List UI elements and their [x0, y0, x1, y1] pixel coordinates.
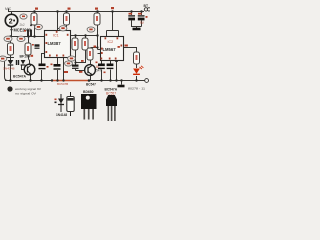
capacitor C8 electrolytic: [104, 65, 114, 73]
svg-text:BC547A: BC547A: [13, 75, 27, 79]
wire ground drop top-right: [136, 27, 138, 29]
svg-text:MCE2000: MCE2000: [14, 27, 32, 32]
wire R6 column: [76, 36, 86, 63]
svg-text:IC1: IC1: [53, 34, 59, 38]
battery terminal BT1: [142, 8, 151, 12]
wire C6 column: [141, 12, 143, 27]
package BD680 body: [81, 94, 97, 120]
wire C3 column: [57, 58, 59, 81]
wire R3 column: [29, 37, 30, 65]
wire IC2 bottom pin1: [101, 61, 103, 81]
svg-text:LM387: LM387: [48, 41, 62, 46]
label oval R4: [59, 26, 67, 31]
wire IC2 bottom pin3: [116, 61, 118, 81]
label oval R5: [68, 56, 76, 61]
wire ground drop bottom: [121, 81, 123, 85]
svg-text:no signal 0V: no signal 0V: [15, 91, 36, 95]
capacitor C6: [138, 13, 148, 19]
wire left frame edge: [5, 58, 9, 81]
wire T1 collector to R7: [90, 60, 92, 65]
label oval D1: [0, 56, 7, 61]
label oval R3: [17, 36, 25, 41]
label red c3 value: [64, 71, 68, 73]
terminal bottom right: [145, 79, 149, 83]
wire LED to rail: [136, 76, 138, 81]
microphone M1: [5, 12, 17, 27]
mic arrow: [10, 29, 13, 32]
capacitor C1: [24, 30, 31, 37]
wire mic drop: [11, 27, 13, 37]
svg-text:1N4148: 1N4148: [56, 113, 67, 117]
transistor T2: [24, 64, 35, 75]
red mark IC2 feed: [111, 7, 114, 9]
wire R8 column: [97, 12, 99, 50]
wire IC2 top feed: [107, 12, 119, 37]
capacitor C9 small: [32, 44, 40, 48]
ground bottom: [118, 85, 125, 88]
node dot R1: [30, 24, 32, 26]
label oval R8: [87, 27, 95, 32]
wire IC2 bottom pin2: [110, 61, 112, 81]
label oval R2: [4, 36, 12, 41]
red emitter rail segment: [52, 80, 89, 82]
resistor R7: [87, 48, 93, 60]
wire R9 to LED: [136, 64, 138, 68]
capacitor C7 electrolytic: [96, 62, 105, 69]
capacitor C3 electrolytic: [51, 64, 61, 70]
red mark BF194: [31, 55, 34, 57]
wire T2 emitter: [30, 75, 32, 81]
red mark R7: [94, 46, 97, 48]
IC2 pin numbers: [101, 37, 123, 59]
svg-text:1N4148: 1N4148: [3, 67, 15, 71]
wire IC1 pin2 to C2: [42, 54, 45, 65]
diode D1: [8, 60, 14, 65]
resistor R6: [82, 38, 88, 50]
svg-text:IC2: IC2: [108, 40, 114, 44]
wire R1 column: [34, 12, 36, 37]
wire bottom ground rail: [5, 80, 145, 82]
wire T1 emitter: [90, 75, 92, 80]
wire rail start tick: [8, 9, 10, 12]
svg-text:BD680: BD680: [83, 90, 94, 94]
red mark R1 top: [35, 8, 38, 10]
svg-text:BF194: BF194: [20, 55, 31, 59]
op-amp IC1: [45, 31, 71, 58]
capacitor C11: [72, 60, 84, 73]
label oval C4: [65, 61, 73, 66]
wire C2 to rail: [41, 70, 43, 81]
wire R7 top link: [91, 47, 98, 50]
transistor T1: [85, 65, 96, 76]
IC1 pin numbers: [46, 31, 69, 57]
wire D2 to T2 base: [22, 66, 27, 70]
red mark R8 top: [95, 8, 98, 10]
svg-text:80278 - 11: 80278 - 11: [128, 87, 145, 91]
capacitor C10 + diode D2: [17, 60, 26, 65]
wire IC1 top pin: [57, 12, 59, 31]
svg-text:BC547B: BC547B: [57, 82, 68, 86]
wire IC2 pin4 stub: [98, 53, 101, 55]
resistor R3: [25, 43, 31, 55]
package BC547 body: [106, 95, 117, 121]
junction dots: [9, 10, 142, 81]
wire R5 column: [75, 36, 77, 71]
resistor R1: [31, 13, 37, 25]
wire IC1 output: [70, 35, 97, 37]
diode package symbol: [55, 94, 65, 112]
op-amp IC2: [101, 37, 124, 61]
ground top-right: [133, 28, 141, 31]
wire T1 base: [76, 70, 85, 72]
wire left stub y58: [5, 57, 15, 59]
svg-text:LM567: LM567: [103, 47, 117, 52]
diode package body: [67, 92, 74, 116]
label oval mic: [20, 14, 27, 19]
svg-text:BC547: BC547: [86, 83, 96, 87]
wire R2 column: [10, 37, 12, 81]
label OUT red: [125, 45, 128, 47]
LED D3: [133, 66, 143, 75]
wire signal line mic to IC1: [12, 36, 45, 38]
label oval R1: [35, 24, 43, 29]
wire top supply rail: [8, 11, 142, 13]
wire IC2 output to R9: [124, 48, 137, 53]
wire R4 column: [58, 12, 67, 29]
resistor R5: [72, 38, 78, 50]
red mark R4 top: [68, 8, 71, 10]
resistor R4: [64, 13, 70, 25]
resistor R9: [134, 52, 140, 64]
resistor R2: [8, 43, 14, 55]
wire node to IC2 pin3: [98, 49, 101, 51]
wire C5 column: [132, 12, 142, 27]
resistor R8: [94, 13, 100, 25]
svg-text:2: 2: [9, 18, 13, 25]
capacitor C5: [128, 13, 135, 19]
wire IC1 pin3 to rail: [63, 58, 65, 81]
caption bullet: [7, 86, 12, 91]
capacitor C2 electrolytic: [39, 65, 49, 69]
svg-text:BC557: BC557: [106, 92, 116, 96]
